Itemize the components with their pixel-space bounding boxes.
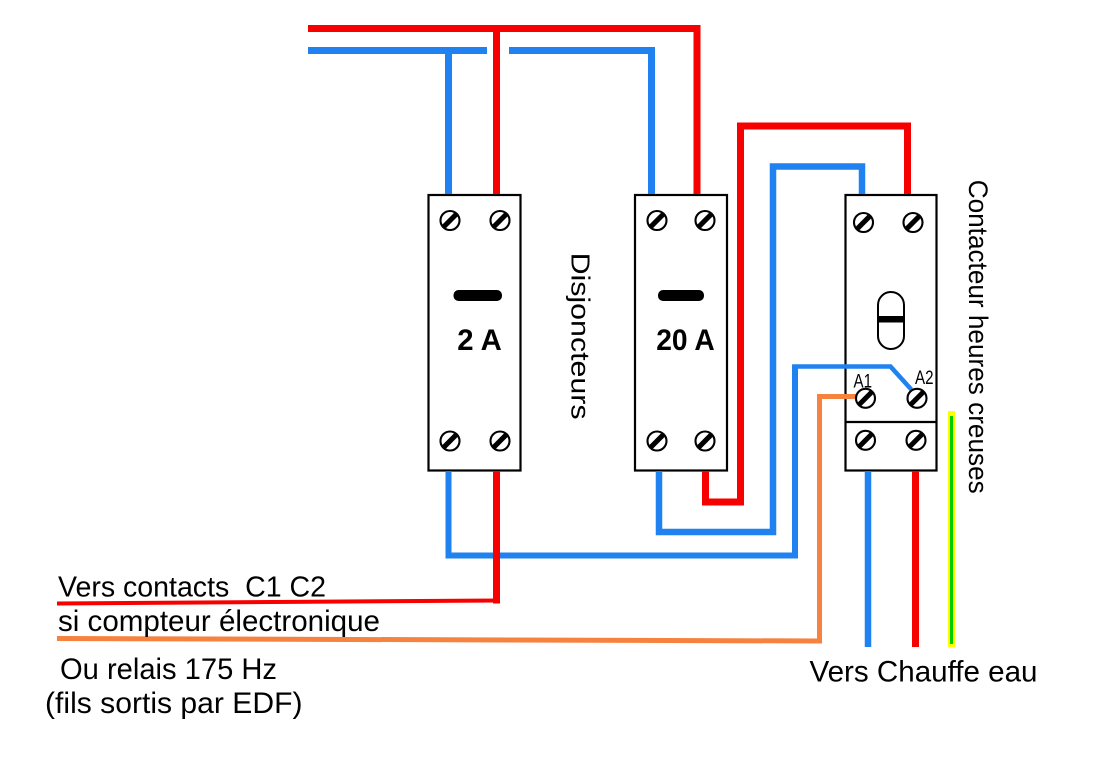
- wire: blue neutral top bus left segment: [308, 47, 487, 54]
- wire: red from 20A breaker output to contactor top right terminal: [706, 126, 908, 502]
- svg-text:Contacteur heures creuses: Contacteur heures creuses: [963, 180, 993, 494]
- terminal screw: contactor bottom left: [856, 431, 875, 450]
- wire: red contactor output to water heater: [912, 471, 919, 647]
- terminal screw: 20A top left: [648, 211, 667, 230]
- terminal screw: contactor top left: [854, 213, 873, 232]
- terminal screw: 20A bottom right: [696, 432, 715, 451]
- contactor toggle middle bar: [878, 316, 904, 323]
- terminal screw: 2A bottom left: [441, 432, 460, 451]
- wire: blue from 20A breaker output to contactor top left terminal: [659, 167, 862, 533]
- wire: blue contactor output to water heater: [865, 471, 872, 647]
- terminal screw: 20A bottom left: [648, 432, 667, 451]
- wire: blue neutral drop to 2A breaker top left terminal: [445, 47, 452, 194]
- svg-text:2 A: 2 A: [457, 324, 502, 357]
- 2A breaker toggle lever: [454, 290, 503, 301]
- wire: thin red line to meter contacts C1 C2: [57, 601, 497, 604]
- terminal screw: contactor coil A2: [908, 389, 927, 408]
- terminal screw: 2A top right: [491, 211, 510, 230]
- terminal screw: 20A top right: [696, 211, 715, 230]
- wire: earth conductor green stripe: [950, 416, 953, 644]
- breaker Q1 body (2A): [429, 195, 521, 471]
- svg-text:A2: A2: [915, 368, 934, 389]
- wire: orange from contactor coil A1 to EDF relay: [57, 397, 857, 642]
- terminal screw: contactor top right: [904, 213, 923, 232]
- svg-text:(fils sortis par EDF): (fils sortis par EDF): [45, 687, 303, 720]
- contactor internal divider line: [846, 421, 937, 423]
- svg-text:si compteur électronique: si compteur électronique: [58, 605, 380, 638]
- wire: earth conductor yellow: [948, 411, 955, 647]
- svg-text:20 A: 20 A: [656, 324, 715, 357]
- terminal screw: 2A top left: [441, 211, 460, 230]
- contactor toggle pill: [878, 292, 904, 349]
- wire: blue neutral top bus right segment with drop to 20A breaker: [509, 51, 652, 195]
- wire: blue coil feed into A2: [793, 367, 912, 390]
- breaker Q2 body (20A): [635, 195, 727, 471]
- wire: red phase top bus feeding breakers: [308, 29, 697, 195]
- terminal screw: 2A bottom right: [491, 432, 510, 451]
- wire: blue from 2A breaker output up to coil riser: [449, 365, 796, 556]
- terminal screw: contactor bottom right: [907, 431, 926, 450]
- svg-text:Vers contacts C1 C2: Vers contacts C1 C2: [58, 572, 326, 604]
- contactor K1 body: [846, 195, 937, 471]
- 20A breaker toggle lever: [658, 290, 704, 301]
- wire: red phase drop to 2A breaker top right terminal: [493, 25, 500, 194]
- svg-text:Vers Chauffe eau: Vers Chauffe eau: [810, 656, 1038, 689]
- svg-text:Ou relais 175 Hz: Ou relais 175 Hz: [60, 653, 277, 686]
- svg-text:Disjoncteurs: Disjoncteurs: [566, 253, 596, 420]
- wire: red from 2A breaker output down to meter contacts line: [493, 471, 500, 604]
- terminal screw: contactor coil A1: [856, 389, 875, 408]
